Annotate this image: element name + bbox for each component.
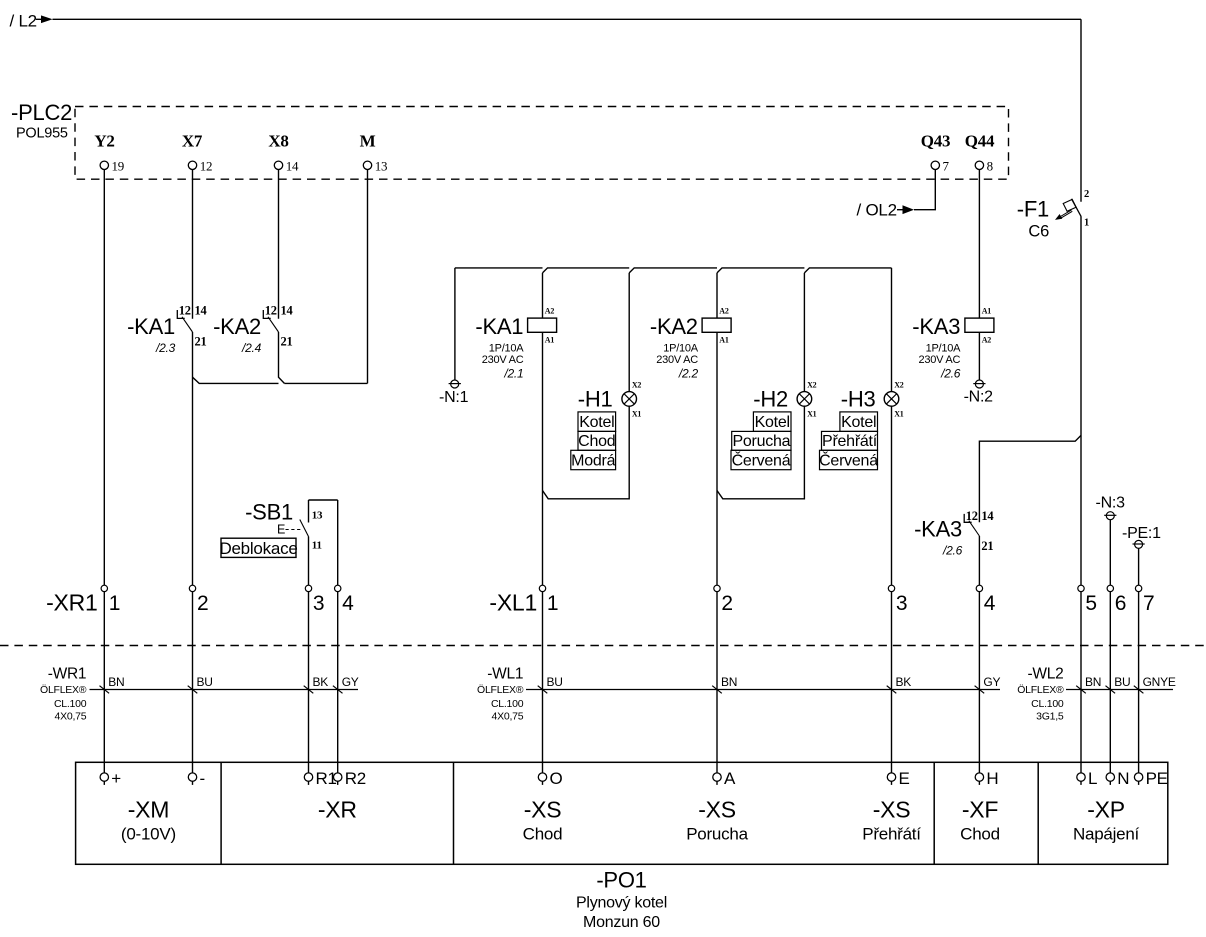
svg-text:R2: R2 [345,769,366,788]
svg-text:2: 2 [721,592,732,615]
svg-text:4X0,75: 4X0,75 [55,710,87,722]
svg-text:-XP: -XP [1087,797,1125,823]
cable WL2 conductor BU [1106,675,1131,693]
terminal XR1:2 [189,585,208,615]
svg-text:Chod: Chod [523,824,563,843]
relay coil KA2 [650,307,731,381]
terminal XR1:1 [101,585,120,615]
cable WL2 conductor BN [1076,675,1101,693]
svg-text:/2.4: /2.4 [241,341,262,355]
connector XS Prehrati labels [862,797,921,844]
svg-text:-H2: -H2 [753,386,788,411]
svg-text:-XS: -XS [698,797,736,823]
svg-text:X1: X1 [632,410,642,419]
node /OL2 destination arrow [857,201,915,220]
svg-text:-H1: -H1 [578,386,613,411]
svg-text:-KA1: -KA1 [475,314,523,339]
svg-text:GY: GY [342,675,359,689]
svg-text:PE: PE [1146,769,1168,788]
wire contact KA3 to terminal XL1:4 [978,536,980,585]
PLC terminal M pin 13 [360,132,388,174]
cable WR1 conductor BN [100,675,125,693]
svg-text:4: 4 [984,592,996,615]
wire branch to lamp H1 [628,273,630,392]
svg-text:ÖLFLEX®: ÖLFLEX® [1017,684,1064,696]
svg-text:13: 13 [375,158,388,173]
terminal XL1:4 [976,585,996,615]
cable WR1 conductor BU [188,675,213,693]
svg-text:7: 7 [943,158,950,173]
cable WL2 line [1066,689,1173,691]
svg-text:-H3: -H3 [841,386,876,411]
wire branch F1 to contact KA3 [979,435,1081,522]
svg-text:X2: X2 [632,380,642,389]
svg-text:A2: A2 [982,336,992,345]
connector XF terminal H [975,769,998,788]
svg-text:12: 12 [966,509,978,523]
svg-text:CL.100: CL.100 [1031,698,1064,710]
cable WR1 label block [40,665,87,722]
wire XR1:4 to XR:R2 [337,592,339,773]
svg-text:-XS: -XS [873,797,911,823]
svg-text:-SB1: -SB1 [245,500,293,525]
svg-text:-N:2: -N:2 [964,389,994,406]
wire XL1:6 to XP:N [1109,592,1111,773]
svg-text:21: 21 [195,335,207,349]
svg-text:Chod: Chod [960,824,1000,843]
svg-text:BN: BN [721,675,737,689]
wire bus1 N:1 to H3 with branch joints [455,268,892,273]
connector XS terminal E [887,769,909,788]
svg-text:Kotel: Kotel [579,414,614,431]
svg-text:A: A [724,769,736,788]
wire lamp H3 to terminal XL1:3 [891,406,893,585]
svg-text:X7: X7 [182,132,203,151]
svg-text:BK: BK [896,675,912,689]
svg-text:A2: A2 [719,307,729,316]
svg-text:/2.1: /2.1 [503,367,523,381]
svg-text:GNYE: GNYE [1143,675,1176,689]
wire X8 to contact KA2 [278,170,280,319]
terminal XR1:4 [335,585,355,615]
svg-text:4: 4 [342,592,354,615]
svg-text:1: 1 [109,592,120,615]
svg-text:1P/10A: 1P/10A [489,342,524,354]
svg-text:BU: BU [197,675,213,689]
connector XP terminal PE [1134,769,1167,788]
wire joint coil KA1 / lamp H1 bottom [543,406,630,499]
relay coil KA3 [912,307,994,381]
svg-text:BN: BN [108,675,124,689]
svg-text:14: 14 [286,158,299,173]
svg-text:BU: BU [547,675,563,689]
svg-text:5: 5 [1085,592,1096,615]
svg-text:11: 11 [312,539,322,551]
net symbol -N:2 [964,380,994,406]
PLC module -PLC2 dashed box [11,100,1009,179]
terminal XL1:6 [1107,585,1126,615]
terminal XL1:3 [888,585,907,615]
svg-text:Plynový kotel: Plynový kotel [576,895,667,912]
connector XF labels [960,797,1000,844]
svg-text:(0-10V): (0-10V) [121,824,176,843]
PLC output Q44 pin 8 [965,132,995,174]
svg-text:Přehřátí: Přehřátí [862,824,921,843]
PLC output Q43 pin 7 [921,132,950,174]
svg-text:-WL2: -WL2 [1027,665,1063,682]
pushbutton SB1 Deblokace [245,500,338,586]
lamp H3 [841,380,904,418]
circuit breaker F1 C6 [1017,189,1089,241]
svg-text:CL.100: CL.100 [491,698,524,710]
wire Q44 to coil KA3 [978,170,980,319]
svg-text:3: 3 [313,592,324,615]
net symbol -N:3 [1096,495,1126,520]
svg-text:-N:3: -N:3 [1096,495,1126,512]
svg-text:1: 1 [1084,217,1089,228]
wire XL1:2 to XS:A [716,592,718,773]
contact KA1 NC (aux of relay KA1) [127,303,207,355]
cable WL2 label block [1017,665,1064,722]
svg-text:12: 12 [200,158,213,173]
label boxes lamp H2 [731,412,791,470]
svg-text:X1: X1 [894,410,904,419]
svg-text:ÖLFLEX®: ÖLFLEX® [477,684,524,696]
svg-text:/ OL2: / OL2 [857,201,897,220]
svg-text:2: 2 [1084,189,1089,200]
wire branch to coil KA2 [716,273,718,318]
connector XS terminal O [538,769,562,788]
svg-text:BN: BN [1085,675,1101,689]
wire L2 horizontal bus [36,18,1081,20]
svg-text:Monzun 60: Monzun 60 [583,914,660,931]
svg-text:X2: X2 [807,380,817,389]
svg-text:X1: X1 [807,410,817,419]
svg-text:1P/10A: 1P/10A [663,342,698,354]
connector XP terminal N [1106,769,1129,788]
svg-text:CL.100: CL.100 [54,698,87,710]
wire Q43 to OL2 reference [914,170,935,210]
wire branch to lamp H2 [803,273,805,392]
svg-text:Y2: Y2 [94,132,114,151]
label boxes lamp H1 [571,412,616,470]
svg-text:H: H [986,769,998,788]
svg-text:A1: A1 [982,307,992,316]
wire F1 down to terminal XL1:5 [1080,216,1082,585]
svg-text:+: + [111,769,121,788]
svg-text:-KA1: -KA1 [127,314,175,339]
wire L2 drop to F1 [1080,19,1082,201]
svg-text:Q43: Q43 [921,132,950,151]
node /L2 source arrow [10,12,53,31]
svg-text:-N:1: -N:1 [439,389,469,406]
cable WL1 label block [477,665,524,722]
cable WR1 conductor GY [333,675,359,693]
connector XS terminal A [713,769,736,788]
svg-text:3: 3 [896,592,907,615]
PLC input X7 pin 12 [182,132,212,174]
svg-text:-KA2: -KA2 [213,314,261,339]
net symbol -PE:1 [1122,525,1161,548]
cable WL2 conductor GNYE [1134,675,1176,693]
lamp H1 [578,380,642,418]
svg-text:/2.3: /2.3 [155,341,176,355]
svg-text:4X0,75: 4X0,75 [492,710,524,722]
wire junction bus X7/X8/M [193,377,368,383]
svg-text:/2.6: /2.6 [942,544,963,558]
wire XL1:5 to XP:L [1080,592,1082,773]
svg-text:M: M [360,132,376,151]
svg-text:6: 6 [1115,592,1126,615]
svg-text:-PO1: -PO1 [596,868,646,893]
svg-text:Modrá: Modrá [571,452,615,469]
relay coil KA1 [475,307,556,381]
connector XM labels [121,797,176,844]
svg-text:POL955: POL955 [16,126,68,142]
wire M down to junction bus [367,170,369,384]
wire XR1:2 to XM:- [192,592,194,773]
contact KA3 NO (aux of relay KA3) [914,509,994,558]
svg-text:A2: A2 [545,307,555,316]
svg-text:L: L [1088,769,1097,788]
wire coil KA1 to terminal XL1:1 [542,332,544,585]
device PO1 labels Plynovy kotel Monzun 60 [576,868,667,931]
wire coil KA2 to terminal XL1:2 [716,332,718,585]
cable WL1 conductor BN [712,675,737,693]
cable WL1 conductor BK [887,675,912,693]
terminal XL1:5 [1078,585,1097,615]
svg-text:BK: BK [313,675,329,689]
svg-text:Porucha: Porucha [732,433,790,450]
wire PE:1 to terminal XL1:7 [1138,548,1140,585]
terminal XR1:3 [305,585,324,615]
svg-text:BU: BU [1114,675,1130,689]
svg-text:Přehřátí: Přehřátí [822,433,878,450]
svg-text:8: 8 [987,158,993,173]
svg-text:3G1,5: 3G1,5 [1036,710,1064,722]
svg-text:14: 14 [281,303,294,317]
svg-text:Kotel: Kotel [841,414,876,431]
wire coil KA3 to N:2 [978,332,980,380]
device box PO1 outline [76,762,1168,864]
lamp H2 [753,380,816,418]
svg-text:14: 14 [981,509,994,523]
cable WR1 line [90,689,359,691]
wire bus1 drop to N:1 [454,268,456,380]
svg-text:-XR: -XR [318,797,357,823]
svg-text:-WL1: -WL1 [487,665,523,682]
svg-text:21: 21 [281,335,293,349]
svg-text:7: 7 [1143,592,1154,615]
svg-text:13: 13 [312,509,323,521]
panel boundary dashed line [0,645,1206,647]
svg-text:-PE:1: -PE:1 [1122,525,1161,542]
svg-text:-F1: -F1 [1017,197,1049,222]
wire XL1:1 to XS:O [542,592,544,773]
svg-text:12: 12 [265,303,277,317]
svg-text:21: 21 [981,539,993,553]
cable WL1 line [526,689,1000,691]
svg-text:O: O [550,769,563,788]
svg-text:X8: X8 [268,132,288,151]
svg-text:-XS: -XS [524,797,562,823]
wire bus1 corner down to lamp H3 [891,268,893,392]
PLC input X8 pin 14 [268,132,299,174]
svg-text:-: - [200,769,205,788]
svg-text:230V AC: 230V AC [919,354,961,366]
PLC output Y2 pin 19 [94,132,124,174]
connector XR terminal R2 [334,769,366,788]
svg-text:-XL1: -XL1 [489,589,537,615]
connector XP labels [1073,797,1140,844]
label box Deblokace [219,538,297,558]
svg-text:ÖLFLEX®: ÖLFLEX® [40,684,87,696]
svg-text:/ L2: / L2 [10,12,37,31]
wire XL1:3 to XS:E [891,592,893,773]
connector XM terminal - [188,769,205,788]
cable WL1 conductor BU [538,675,563,693]
svg-text:Napájení: Napájení [1073,824,1140,843]
svg-text:12: 12 [179,303,191,317]
svg-text:2: 2 [197,592,208,615]
svg-text:E: E [899,769,910,788]
wire branch to coil KA1 [542,273,544,318]
svg-text:230V AC: 230V AC [482,354,524,366]
svg-text:N: N [1117,769,1129,788]
svg-text:Deblokace: Deblokace [219,539,297,558]
contact KA2 NC (aux of relay KA2) [213,303,293,355]
svg-text:-PLC2: -PLC2 [11,100,72,125]
wire XL1:7 to XP:PE [1138,592,1140,773]
svg-text:A1: A1 [545,336,555,345]
svg-text:-KA3: -KA3 [912,314,960,339]
svg-text:Červená: Červená [819,450,878,469]
svg-text:X2: X2 [894,380,904,389]
terminal XL1:2 [714,585,733,615]
wire contact KA2 to junction [279,332,285,383]
svg-text:Chod: Chod [578,433,615,450]
svg-text:Porucha: Porucha [686,824,748,843]
svg-text:Kotel: Kotel [755,414,790,431]
svg-text:A1: A1 [719,336,729,345]
svg-text:C6: C6 [1028,223,1049,241]
wire Y2 to terminal XR1:1 [103,170,105,586]
wire XR1:3 to XR:R1 [308,592,310,773]
connector XS Chod labels [523,797,563,844]
wire contact KA1 to terminal XR1:2 [192,332,194,585]
cable WL1 conductor GY [975,675,1001,693]
terminal XL1:7 [1135,585,1154,615]
svg-text:230V AC: 230V AC [656,354,698,366]
cable WR1 conductor BK [304,675,329,693]
wire joint coil KA2 / lamp H2 bottom [717,406,804,499]
svg-text:GY: GY [983,675,1000,689]
svg-text:-WR1: -WR1 [48,665,87,682]
svg-text:-XF: -XF [962,797,999,823]
terminal XL1:1 [539,585,558,615]
label boxes lamp H3 [819,412,878,470]
svg-text:/2.2: /2.2 [678,367,699,381]
svg-text:1: 1 [547,592,558,615]
wire XR1:1 to XM:+ [103,592,105,773]
svg-text:1P/10A: 1P/10A [926,342,961,354]
net symbol -N:1 [439,380,469,406]
svg-text:-KA3: -KA3 [914,517,962,542]
svg-text:Q44: Q44 [965,132,995,151]
connector XS Porucha labels [686,797,748,844]
svg-text:-XM: -XM [128,797,169,823]
wire X7 to contact KA1 [192,170,194,319]
wire N:3 to terminal XL1:6 [1109,519,1111,585]
svg-text:19: 19 [112,158,125,173]
connector XR terminal R1 [304,769,336,788]
wire XL1:4 to XF:H [978,592,980,773]
svg-text:/2.6: /2.6 [940,367,961,381]
svg-text:Červená: Červená [732,450,791,469]
svg-text:-KA2: -KA2 [650,314,698,339]
connector XM terminal + [100,769,121,788]
svg-text:-XR1: -XR1 [46,589,97,615]
connector XP terminal L [1077,769,1097,788]
svg-text:14: 14 [195,303,208,317]
